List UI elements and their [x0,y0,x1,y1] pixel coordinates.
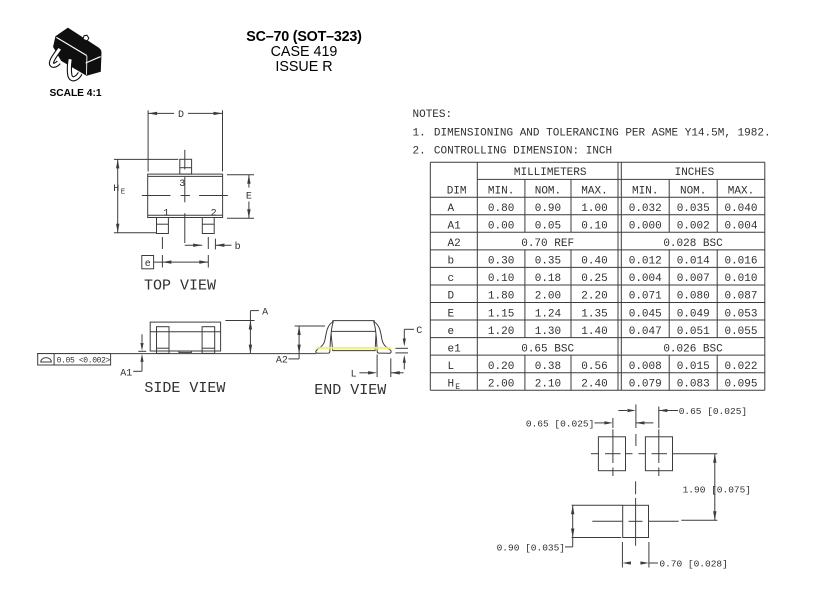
top view pin 3 tab [180,159,192,174]
svg-text:E: E [246,192,252,203]
svg-text:0.25: 0.25 [581,273,607,285]
svg-text:1.15: 1.15 [488,308,514,320]
svg-text:0.000: 0.000 [629,221,662,233]
svg-text:A2: A2 [276,356,288,367]
dimension 0.65 left (left pad to centre) [526,418,654,430]
svg-text:0.028 BSC: 0.028 BSC [663,238,723,250]
svg-text:MIN.: MIN. [632,186,658,198]
svg-text:0.05 <0.002>: 0.05 <0.002> [57,356,111,365]
footprint right pad [639,429,718,476]
package isometric icon [51,28,101,79]
title: case number [0,44,608,60]
svg-text:b: b [235,241,241,253]
svg-text:NOM.: NOM. [535,186,561,198]
svg-text:H: H [113,184,119,195]
svg-text:0.18: 0.18 [535,273,561,285]
svg-text:A: A [262,308,268,319]
svg-text:1: 1 [163,209,169,220]
title: part name [0,29,608,45]
svg-text:0.35: 0.35 [535,256,561,268]
svg-text:D: D [448,291,455,303]
svg-text:0.022: 0.022 [724,361,757,373]
dimension e and e box [142,256,209,270]
top view pin 2 [202,218,214,234]
svg-text:0.032: 0.032 [629,203,662,215]
svg-text:0.012: 0.012 [629,256,662,268]
svg-text:0.040: 0.040 [724,203,757,215]
end view right lead [374,322,391,354]
svg-text:2.00: 2.00 [488,378,514,390]
footprint left pad [591,429,633,476]
svg-text:E: E [455,383,460,392]
svg-text:0.015: 0.015 [677,361,710,373]
svg-text:E: E [121,189,126,197]
top view pin 1 [157,218,169,234]
scale label [40,88,111,99]
svg-text:SIDE VIEW: SIDE VIEW [144,380,225,397]
svg-text:0.56: 0.56 [581,361,607,373]
footprint bottom pad [592,481,678,546]
dimension A [225,308,268,354]
svg-text:0.035: 0.035 [677,203,710,215]
svg-text:2.: 2. [413,145,426,157]
svg-text:2: 2 [211,209,217,220]
svg-text:0.016: 0.016 [724,256,757,268]
svg-text:e1: e1 [448,343,462,355]
svg-text:e: e [448,326,455,338]
svg-text:1.90 [0.075]: 1.90 [0.075] [683,484,751,495]
svg-text:TOP VIEW: TOP VIEW [144,278,216,295]
svg-text:0.053: 0.053 [724,308,757,320]
svg-text:0.047: 0.047 [629,326,662,338]
dimension 1.90 [681,454,751,521]
svg-text:0.002: 0.002 [677,221,710,233]
svg-text:0.20: 0.20 [488,361,514,373]
svg-text:0.055: 0.055 [724,326,757,338]
svg-text:0.80: 0.80 [488,203,514,215]
dimension C [395,326,422,369]
svg-text:0.70 REF: 0.70 REF [521,238,574,250]
svg-text:0.10: 0.10 [581,221,607,233]
svg-text:0.90: 0.90 [535,203,561,215]
svg-text:1.35: 1.35 [581,308,607,320]
svg-text:1.30: 1.30 [535,326,561,338]
end view left lead [316,322,333,354]
svg-text:L: L [351,370,357,381]
svg-text:DIMENSIONING AND TOLERANCING P: DIMENSIONING AND TOLERANCING PER ASME Y1… [434,128,771,140]
side view left lead [157,327,170,354]
footprint centre line [635,404,637,446]
dimension table [430,162,765,392]
svg-text:A: A [448,203,455,215]
dimension E [227,175,254,218]
svg-text:0.30: 0.30 [488,256,514,268]
dimension A2 [276,326,325,367]
svg-text:D: D [178,110,184,121]
svg-text:0.10: 0.10 [488,273,514,285]
svg-text:c: c [448,273,455,285]
svg-text:C: C [416,326,422,337]
side view right lead [202,327,215,354]
svg-text:0.00: 0.00 [488,221,514,233]
svg-text:0.05: 0.05 [535,221,561,233]
svg-text:A1: A1 [120,368,132,379]
svg-text:L: L [448,361,455,373]
svg-text:A1: A1 [448,221,462,233]
svg-text:CONTROLLING DIMENSION: INCH: CONTROLLING DIMENSION: INCH [434,145,612,157]
svg-text:0.004: 0.004 [724,221,757,233]
dimension A1 [120,334,146,379]
svg-text:0.40: 0.40 [581,256,607,268]
svg-text:0.051: 0.051 [677,326,710,338]
svg-text:MAX.: MAX. [728,186,754,198]
svg-text:0.080: 0.080 [677,291,710,303]
svg-text:MILLIMETERS: MILLIMETERS [514,167,587,179]
svg-text:b: b [448,256,455,268]
svg-text:0.008: 0.008 [629,361,662,373]
svg-text:NOTES:: NOTES: [413,109,453,121]
svg-text:0.90 [0.035]: 0.90 [0.035] [497,543,565,554]
svg-text:0.095: 0.095 [724,378,757,390]
svg-text:MIN.: MIN. [488,186,514,198]
dimension 0.70 [622,542,727,570]
svg-text:0.65 [0.025]: 0.65 [0.025] [679,406,747,417]
dimension b [185,239,241,254]
seating plane line [37,353,316,355]
svg-text:H: H [448,378,455,390]
svg-text:1.: 1. [413,128,426,140]
notes [413,109,771,157]
svg-text:1.80: 1.80 [488,291,514,303]
yellow seating highlight [316,347,391,350]
svg-text:0.38: 0.38 [535,361,561,373]
svg-text:1.24: 1.24 [535,308,562,320]
svg-text:0.65 [0.025]: 0.65 [0.025] [526,419,594,430]
svg-text:NOM.: NOM. [680,186,706,198]
svg-text:DIM: DIM [447,186,467,198]
svg-text:0.65 BSC: 0.65 BSC [521,343,574,355]
svg-text:0.014: 0.014 [677,256,710,268]
dimension L [351,355,404,381]
svg-text:A2: A2 [448,238,461,250]
side view centre lead foot [179,351,192,352]
dimension 0.65 right (centre to right pad) [618,406,747,428]
svg-text:MAX.: MAX. [581,186,607,198]
svg-text:2.20: 2.20 [581,291,607,303]
dimension HE [113,159,178,232]
svg-text:0.079: 0.079 [629,378,662,390]
svg-text:0.010: 0.010 [724,273,757,285]
svg-text:0.007: 0.007 [677,273,710,285]
svg-text:2.00: 2.00 [535,291,561,303]
svg-text:END VIEW: END VIEW [314,382,386,399]
title: issue [0,59,608,75]
svg-text:INCHES: INCHES [675,167,715,179]
svg-text:E: E [448,308,455,320]
svg-text:0.087: 0.087 [724,291,757,303]
svg-text:0.70 [0.028]: 0.70 [0.028] [659,559,727,570]
svg-text:1.00: 1.00 [581,203,607,215]
svg-text:2.40: 2.40 [581,378,607,390]
svg-text:1.20: 1.20 [488,326,514,338]
svg-text:0.026 BSC: 0.026 BSC [663,343,723,355]
dimension 0.90 [497,505,623,553]
seating plane datum box [38,354,111,366]
svg-text:2.10: 2.10 [535,378,561,390]
svg-text:1.40: 1.40 [581,326,607,338]
svg-text:e: e [145,259,151,270]
dimension D [148,110,222,171]
svg-text:0.049: 0.049 [677,308,710,320]
end view body [331,321,376,351]
side view body [150,322,220,351]
top view body [148,174,223,217]
svg-text:0.004: 0.004 [629,273,662,285]
svg-text:0.083: 0.083 [677,378,710,390]
svg-text:0.045: 0.045 [629,308,662,320]
top view centrelines [142,150,228,268]
svg-text:0.071: 0.071 [629,291,662,303]
